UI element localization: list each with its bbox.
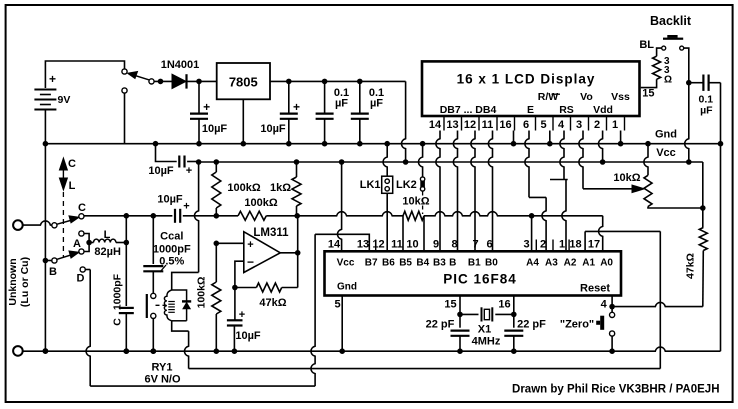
svg-text:A2: A2 bbox=[564, 258, 577, 269]
svg-text:6: 6 bbox=[486, 239, 492, 251]
svg-text:E: E bbox=[527, 104, 534, 116]
svg-text:+: + bbox=[239, 309, 245, 321]
svg-text:16: 16 bbox=[499, 119, 511, 131]
svg-text:B: B bbox=[449, 258, 456, 269]
svg-text:10kΩ: 10kΩ bbox=[613, 172, 640, 184]
svg-text:RY1: RY1 bbox=[152, 362, 173, 374]
svg-text:6V N/O: 6V N/O bbox=[144, 374, 181, 386]
svg-text:1N4001: 1N4001 bbox=[161, 59, 200, 71]
svg-text:B: B bbox=[49, 266, 57, 278]
svg-text:C: C bbox=[78, 202, 86, 214]
svg-text:3: 3 bbox=[523, 239, 529, 251]
svg-text:B0: B0 bbox=[485, 258, 498, 269]
svg-text:5: 5 bbox=[334, 299, 340, 311]
svg-text:2: 2 bbox=[540, 239, 546, 251]
svg-text:LK2: LK2 bbox=[396, 179, 417, 191]
svg-text:Backlit: Backlit bbox=[650, 14, 692, 28]
svg-text:47kΩ: 47kΩ bbox=[259, 297, 286, 309]
svg-text:Drawn by Phil Rice VK3BHR / PA: Drawn by Phil Rice VK3BHR / PA0EJH bbox=[512, 384, 719, 396]
svg-text:10µF: 10µF bbox=[148, 165, 174, 177]
svg-text:A0: A0 bbox=[600, 258, 613, 269]
svg-text:10µF: 10µF bbox=[157, 194, 183, 206]
svg-text:10µF: 10µF bbox=[202, 123, 228, 135]
svg-text:B5: B5 bbox=[399, 258, 412, 269]
svg-text:22 pF: 22 pF bbox=[426, 319, 455, 331]
svg-text:(Lu or Cu): (Lu or Cu) bbox=[19, 257, 31, 307]
svg-text:4: 4 bbox=[601, 299, 608, 311]
svg-text:B7: B7 bbox=[365, 258, 378, 269]
svg-text:15: 15 bbox=[642, 88, 654, 100]
svg-text:10µF: 10µF bbox=[260, 123, 286, 135]
svg-text:8: 8 bbox=[451, 239, 457, 251]
svg-text:B4: B4 bbox=[416, 258, 429, 269]
svg-text:Gnd: Gnd bbox=[655, 129, 677, 141]
svg-text:10: 10 bbox=[406, 239, 418, 251]
svg-text:A4: A4 bbox=[526, 258, 539, 269]
svg-text:BL: BL bbox=[639, 39, 654, 51]
svg-text:+: + bbox=[183, 201, 189, 213]
svg-text:B6: B6 bbox=[382, 258, 395, 269]
svg-text:Vss: Vss bbox=[611, 91, 630, 103]
svg-text:R/W: R/W bbox=[538, 91, 559, 103]
svg-text:A3: A3 bbox=[545, 258, 558, 269]
svg-text:A: A bbox=[73, 238, 81, 250]
svg-text:9V: 9V bbox=[58, 94, 71, 106]
svg-text:14: 14 bbox=[328, 239, 341, 251]
svg-text:13: 13 bbox=[446, 119, 458, 131]
svg-text:Vcc: Vcc bbox=[656, 147, 676, 159]
svg-text:µF: µF bbox=[370, 98, 383, 110]
svg-text:100kΩ: 100kΩ bbox=[227, 182, 260, 194]
svg-text:−: − bbox=[247, 255, 254, 269]
svg-text:11: 11 bbox=[391, 239, 403, 251]
svg-text:"Zero": "Zero" bbox=[560, 319, 594, 331]
svg-text:4: 4 bbox=[558, 119, 565, 131]
svg-text:B1: B1 bbox=[468, 258, 481, 269]
svg-text:17: 17 bbox=[588, 239, 600, 251]
svg-text:Ω: Ω bbox=[664, 75, 672, 86]
svg-text:L: L bbox=[104, 229, 111, 241]
svg-text:7805: 7805 bbox=[229, 74, 258, 89]
svg-text:Reset: Reset bbox=[580, 283, 610, 295]
svg-text:12: 12 bbox=[372, 239, 384, 251]
svg-text:+: + bbox=[203, 100, 210, 114]
svg-text:1: 1 bbox=[612, 119, 618, 131]
svg-text:13: 13 bbox=[357, 239, 369, 251]
svg-text:3: 3 bbox=[576, 119, 582, 131]
svg-text:1000pF: 1000pF bbox=[111, 273, 123, 310]
svg-text:L: L bbox=[69, 180, 76, 192]
svg-text:C: C bbox=[68, 158, 76, 170]
svg-text:100kΩ: 100kΩ bbox=[196, 277, 208, 309]
svg-text:+: + bbox=[186, 165, 192, 177]
svg-text:1kΩ: 1kΩ bbox=[270, 182, 291, 194]
svg-text:18: 18 bbox=[569, 239, 581, 251]
svg-text:47kΩ: 47kΩ bbox=[685, 253, 697, 279]
svg-text:µF: µF bbox=[335, 98, 348, 110]
svg-text:82µH: 82µH bbox=[94, 246, 121, 258]
svg-text:RS: RS bbox=[559, 104, 574, 116]
svg-text:Vcc: Vcc bbox=[337, 258, 355, 269]
svg-text:9: 9 bbox=[433, 239, 439, 251]
svg-text:10kΩ: 10kΩ bbox=[402, 196, 429, 208]
svg-text:Vdd: Vdd bbox=[593, 104, 613, 116]
svg-text:2: 2 bbox=[594, 119, 600, 131]
svg-text:PIC 16F84: PIC 16F84 bbox=[443, 272, 517, 287]
svg-text:D: D bbox=[77, 273, 85, 285]
svg-text:Vo: Vo bbox=[580, 91, 593, 103]
svg-text:4MHz: 4MHz bbox=[472, 336, 501, 348]
svg-text:C: C bbox=[111, 318, 123, 326]
svg-text:7: 7 bbox=[472, 239, 478, 251]
svg-text:16: 16 bbox=[498, 299, 510, 311]
svg-text:X1: X1 bbox=[478, 324, 491, 336]
svg-text:22 pF: 22 pF bbox=[517, 319, 546, 331]
svg-text:Ccal: Ccal bbox=[160, 231, 183, 243]
svg-text:LM311: LM311 bbox=[253, 227, 289, 239]
svg-text:B3: B3 bbox=[433, 258, 446, 269]
svg-text:100kΩ: 100kΩ bbox=[244, 197, 277, 209]
svg-text:0.5%: 0.5% bbox=[159, 255, 184, 267]
svg-text:12: 12 bbox=[464, 119, 476, 131]
svg-text:+: + bbox=[49, 72, 56, 86]
svg-text:Unknown: Unknown bbox=[7, 258, 19, 305]
svg-text:A1: A1 bbox=[582, 258, 595, 269]
svg-text:+: + bbox=[293, 100, 300, 114]
svg-text:11: 11 bbox=[482, 119, 494, 131]
svg-text:LK1: LK1 bbox=[360, 179, 381, 191]
svg-text:µF: µF bbox=[700, 105, 713, 117]
svg-text:DB7 ... DB4: DB7 ... DB4 bbox=[440, 104, 497, 116]
svg-text:6: 6 bbox=[523, 119, 529, 131]
svg-text:1: 1 bbox=[559, 239, 565, 251]
svg-text:1000pF: 1000pF bbox=[153, 243, 191, 255]
svg-text:Gnd: Gnd bbox=[337, 282, 357, 293]
svg-text:10µF: 10µF bbox=[235, 330, 261, 342]
svg-text:5: 5 bbox=[540, 119, 546, 131]
svg-text:15: 15 bbox=[444, 299, 456, 311]
svg-text:14: 14 bbox=[429, 119, 442, 131]
svg-text:16 x 1 LCD Display: 16 x 1 LCD Display bbox=[457, 72, 596, 87]
svg-text:+: + bbox=[247, 239, 253, 251]
